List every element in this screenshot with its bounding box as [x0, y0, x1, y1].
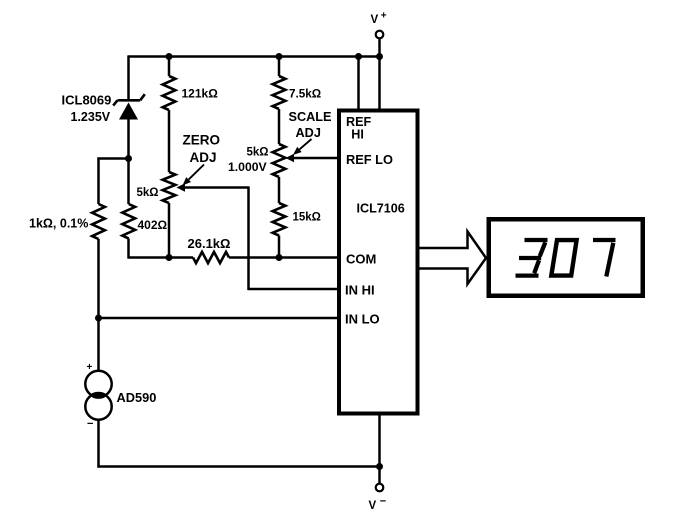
svg-text:1.000V: 1.000V — [228, 160, 267, 174]
svg-text:1.235V: 1.235V — [71, 110, 111, 124]
svg-text:121kΩ: 121kΩ — [182, 87, 219, 101]
svg-text:AD590: AD590 — [117, 390, 157, 405]
svg-text:COM: COM — [346, 252, 376, 267]
svg-text:5kΩ: 5kΩ — [247, 147, 269, 159]
svg-text:−: − — [380, 496, 386, 508]
svg-text:7.5kΩ: 7.5kΩ — [289, 88, 321, 101]
svg-text:402Ω: 402Ω — [138, 218, 168, 232]
svg-text:15kΩ: 15kΩ — [293, 212, 321, 224]
svg-text:ZERO: ZERO — [183, 133, 221, 148]
svg-text:+: + — [381, 11, 387, 22]
svg-text:ADJ: ADJ — [296, 126, 321, 140]
svg-text:ICL7106: ICL7106 — [357, 202, 405, 216]
svg-text:5kΩ: 5kΩ — [137, 187, 159, 199]
svg-text:−: − — [87, 418, 93, 430]
svg-text:REF LO: REF LO — [346, 152, 393, 167]
svg-text:IN LO: IN LO — [345, 312, 380, 327]
svg-text:+: + — [87, 362, 93, 373]
svg-text:26.1kΩ: 26.1kΩ — [188, 236, 231, 251]
svg-text:ICL8069: ICL8069 — [62, 93, 112, 108]
svg-text:IN HI: IN HI — [345, 283, 375, 298]
svg-text:ADJ: ADJ — [190, 150, 217, 165]
svg-text:HI: HI — [351, 128, 364, 142]
svg-text:SCALE: SCALE — [289, 110, 332, 124]
svg-text:1kΩ, 0.1%: 1kΩ, 0.1% — [29, 217, 88, 231]
svg-text:V: V — [371, 14, 379, 26]
svg-text:V: V — [369, 500, 377, 512]
